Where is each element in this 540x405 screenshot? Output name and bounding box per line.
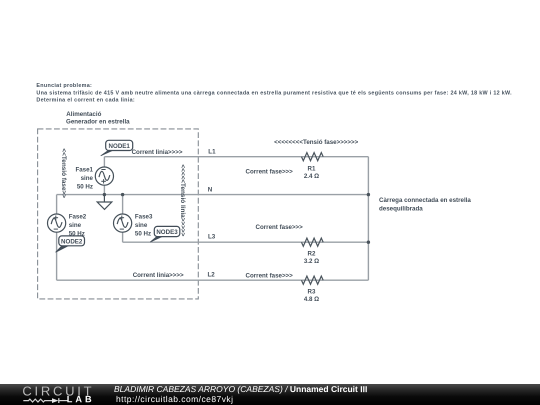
node tag NODE1 bbox=[101, 140, 133, 156]
junction dot N/Fase3 bbox=[121, 193, 124, 196]
svg-text:R2: R2 bbox=[308, 251, 316, 258]
footer byline bbox=[114, 385, 367, 394]
svg-text:Corrent fase>>>: Corrent fase>>> bbox=[256, 224, 304, 231]
junction dot bus/L3 bbox=[367, 241, 370, 244]
svg-text:R3: R3 bbox=[308, 289, 316, 296]
svg-text:Enunciat problema:: Enunciat problema: bbox=[36, 83, 92, 89]
label Fase1 sine 50 Hz bbox=[75, 167, 93, 191]
svg-text:50 Hz: 50 Hz bbox=[135, 231, 151, 238]
svg-text:LAB: LAB bbox=[67, 394, 95, 404]
label Fase2 sine 50 Hz bbox=[69, 214, 87, 238]
svg-text:NODE3: NODE3 bbox=[156, 229, 178, 236]
svg-text:Fase2: Fase2 bbox=[69, 214, 87, 221]
resistor R1 bbox=[302, 153, 324, 161]
voltage source Fase2 bbox=[48, 214, 66, 232]
junction dot N/Fase1/ground bbox=[103, 193, 106, 196]
svg-text:N: N bbox=[208, 186, 213, 193]
node tag NODE2 bbox=[56, 236, 85, 252]
svg-text:NODE1: NODE1 bbox=[109, 143, 131, 150]
annotation: Alimentació Generador en estrella bbox=[66, 111, 130, 126]
wire Fase1 bottom stub bbox=[103, 185, 105, 195]
wire Fase1 top stub bbox=[103, 157, 105, 168]
svg-text:Corrent fase>>>: Corrent fase>>> bbox=[246, 272, 294, 279]
voltage source Fase1 bbox=[95, 167, 113, 185]
svg-text:<<<<<Tensió linia>>>>>: <<<<<Tensió linia>>>>> bbox=[179, 164, 186, 236]
wire Fase3 top stub bbox=[122, 195, 124, 215]
svg-text:Càrrega connectada en estrella: Càrrega connectada en estrella bbox=[379, 197, 471, 204]
wire Fase2 bottom stub bbox=[56, 232, 58, 280]
footer url bbox=[115, 395, 232, 404]
ground symbol bbox=[97, 195, 112, 210]
wire N horizontal bbox=[57, 194, 369, 196]
svg-text:2.4 Ω: 2.4 Ω bbox=[304, 173, 319, 180]
svg-text:sine: sine bbox=[81, 175, 94, 182]
node tag NODE3 bbox=[150, 226, 180, 242]
svg-text:NODE2: NODE2 bbox=[61, 239, 83, 246]
svg-text:Generador en estrella: Generador en estrella bbox=[66, 119, 130, 126]
svg-text:Corrent linia>>>>: Corrent linia>>>> bbox=[133, 272, 184, 279]
wire L2 horizontal bbox=[57, 279, 369, 281]
svg-text:Corrent fase>>>: Corrent fase>>> bbox=[246, 168, 294, 175]
svg-text:L1: L1 bbox=[208, 149, 216, 156]
wire L1 horizontal bbox=[104, 156, 368, 158]
footer logo CIRCUIT LAB bbox=[0, 384, 120, 405]
wire L3 horizontal bbox=[123, 241, 369, 243]
svg-text:4.8 Ω: 4.8 Ω bbox=[304, 296, 319, 303]
svg-text:<<<<<<<<Tensió fase>>>>>>: <<<<<<<<Tensió fase>>>>>> bbox=[274, 139, 359, 146]
svg-text:R1: R1 bbox=[308, 166, 316, 173]
dashed enclosure box (generator) bbox=[38, 129, 199, 299]
footer bar bbox=[0, 384, 540, 405]
svg-text:<<Tensió fase>>: <<Tensió fase>> bbox=[60, 148, 67, 198]
label Fase3 sine 50 Hz bbox=[135, 214, 153, 238]
svg-text:Fase3: Fase3 bbox=[135, 214, 153, 221]
resistor R3 bbox=[302, 276, 324, 284]
junction dot bus/N bbox=[367, 193, 370, 196]
resistor R2 bbox=[302, 238, 324, 246]
svg-text:3.2 Ω: 3.2 Ω bbox=[304, 258, 319, 265]
voltage source Fase3 bbox=[114, 214, 132, 232]
problem statement text bbox=[36, 83, 512, 104]
svg-text:sine: sine bbox=[135, 222, 148, 229]
svg-text:50 Hz: 50 Hz bbox=[77, 184, 93, 191]
annotation Carrega connectada bbox=[379, 197, 471, 212]
svg-text:sine: sine bbox=[69, 222, 82, 229]
label R1 2.4 ohm bbox=[304, 166, 319, 180]
svg-text:desequilibrada: desequilibrada bbox=[379, 205, 423, 212]
svg-text:Alimentació: Alimentació bbox=[66, 111, 101, 118]
svg-text:L3: L3 bbox=[208, 233, 216, 240]
svg-text:Determina el corrent en cada l: Determina el corrent en cada linia: bbox=[36, 98, 135, 104]
svg-text:Corrent linia>>>>: Corrent linia>>>> bbox=[132, 149, 183, 156]
label R2 3.2 ohm bbox=[304, 251, 319, 265]
svg-text:Fase1: Fase1 bbox=[75, 167, 93, 174]
svg-text:Una sistema trifàsic de 415 V: Una sistema trifàsic de 415 V amb neutre… bbox=[36, 90, 512, 96]
wire right bus vertical bbox=[367, 157, 369, 281]
label R3 4.8 ohm bbox=[304, 289, 319, 303]
svg-text:L2: L2 bbox=[208, 271, 216, 278]
wire Fase3 bottom stub bbox=[122, 232, 124, 242]
wire Fase2 top stub bbox=[56, 195, 58, 215]
